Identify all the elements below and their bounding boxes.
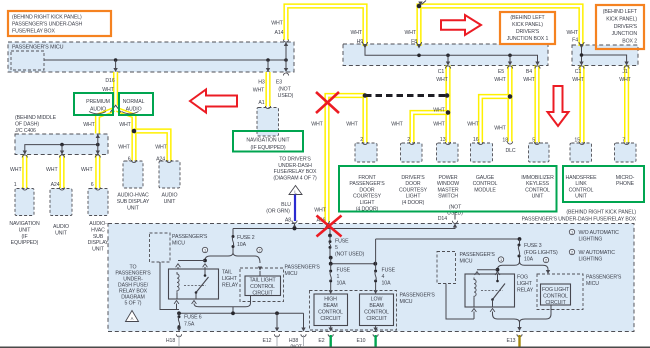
svg-text:PASSENGER'S: PASSENGER'S [285, 265, 321, 271]
svg-text:2: 2 [571, 250, 573, 255]
svg-text:KICK PANEL): KICK PANEL) [606, 16, 637, 22]
svg-text:AUDIO: AUDIO [90, 107, 106, 113]
svg-text:(NOT USED): (NOT USED) [335, 252, 365, 258]
svg-text:UNIT: UNIT [164, 199, 177, 205]
svg-text:E5: E5 [498, 69, 504, 75]
svg-text:W/ AUTOMATIC: W/ AUTOMATIC [579, 250, 616, 256]
svg-text:WHT: WHT [83, 122, 95, 128]
svg-text:UNIT: UNIT [532, 194, 545, 200]
svg-text:AUDIO-: AUDIO- [89, 221, 107, 227]
svg-text:CIRCUIT: CIRCUIT [320, 316, 341, 322]
svg-text:H3: H3 [258, 80, 265, 86]
svg-text:A24: A24 [156, 157, 165, 163]
svg-text:E3: E3 [276, 80, 282, 86]
svg-text:RELAY: RELAY [222, 283, 239, 289]
svg-text:2: 2 [407, 137, 410, 143]
svg-text:1: 1 [500, 257, 502, 262]
svg-text:5: 5 [532, 138, 535, 144]
svg-text:OF DASH): OF DASH) [15, 121, 39, 127]
svg-text:WHT: WHT [314, 207, 326, 213]
svg-text:LIGHT: LIGHT [406, 194, 422, 200]
svg-text:10A: 10A [237, 242, 247, 248]
svg-text:LOW: LOW [371, 297, 383, 303]
svg-text:E13: E13 [507, 338, 516, 344]
svg-text:KICK PANEL): KICK PANEL) [512, 22, 543, 28]
svg-text:FUSE/RELAY BOX: FUSE/RELAY BOX [274, 169, 317, 175]
svg-text:WHT: WHT [346, 122, 358, 128]
svg-text:2: 2 [545, 258, 547, 263]
svg-text:10A: 10A [524, 257, 534, 263]
svg-text:H38: H38 [289, 338, 298, 344]
svg-text:WHT: WHT [572, 77, 584, 83]
svg-text:WHT: WHT [10, 167, 22, 173]
svg-text:A14: A14 [275, 30, 284, 36]
svg-text:AUDIO: AUDIO [53, 224, 69, 230]
svg-text:HANDSFREE: HANDSFREE [565, 175, 597, 181]
svg-text:MICU: MICU [586, 281, 599, 287]
svg-text:6: 6 [91, 182, 94, 188]
svg-text:BLU: BLU [281, 202, 291, 208]
svg-text:2: 2 [360, 137, 363, 143]
svg-text:E12: E12 [263, 338, 272, 344]
svg-text:PREMIUM: PREMIUM [86, 99, 110, 105]
svg-text:A8: A8 [285, 218, 291, 224]
svg-text:NAVIGATION UNIT: NAVIGATION UNIT [246, 138, 290, 144]
svg-text:UNIT: UNIT [92, 247, 105, 253]
svg-text:IMMOBILIZER: IMMOBILIZER [521, 175, 554, 181]
svg-text:E10: E10 [357, 338, 366, 344]
svg-text:AUDIO: AUDIO [126, 107, 142, 113]
svg-text:FUSE: FUSE [382, 268, 396, 274]
svg-text:FUSE/RELAY BOX: FUSE/RELAY BOX [12, 29, 55, 35]
svg-text:FUSE 3: FUSE 3 [524, 243, 542, 249]
svg-text:(4 DOOR): (4 DOOR) [402, 200, 425, 206]
svg-text:JUNCTION BOX 1: JUNCTION BOX 1 [507, 36, 549, 42]
svg-text:FUSE: FUSE [335, 239, 349, 245]
svg-text:H9: H9 [357, 39, 364, 45]
svg-text:(IF EQUIPPED): (IF EQUIPPED) [250, 145, 285, 151]
svg-text:WHT: WHT [118, 145, 130, 151]
svg-text:UNIT: UNIT [55, 230, 68, 236]
svg-text:WHT: WHT [155, 145, 167, 151]
svg-text:JUNCTION: JUNCTION [612, 31, 638, 37]
svg-text:TAIL: TAIL [222, 270, 232, 276]
svg-text:(DIAGRAM 4 OF 7): (DIAGRAM 4 OF 7) [273, 175, 317, 181]
svg-text:15: 15 [574, 138, 580, 144]
svg-text:J1: J1 [622, 69, 627, 75]
svg-text:DOOR: DOOR [359, 187, 375, 193]
svg-text:PASSENGER'S UNDER-DASH: PASSENGER'S UNDER-DASH [12, 22, 83, 28]
svg-text:FOG LIGHT: FOG LIGHT [542, 287, 570, 293]
svg-text:PASSENGER'S: PASSENGER'S [586, 275, 622, 281]
svg-text:10A: 10A [337, 281, 347, 287]
svg-text:B4: B4 [526, 69, 532, 75]
svg-text:PASSENGER'S: PASSENGER'S [172, 234, 208, 240]
svg-text:WHT: WHT [311, 122, 323, 128]
svg-text:(OR GRN): (OR GRN) [266, 209, 290, 215]
svg-text:WHT: WHT [436, 77, 448, 83]
svg-text:CONTROL: CONTROL [569, 187, 594, 193]
svg-text:A: A [131, 316, 134, 321]
svg-text:C1: C1 [575, 69, 582, 75]
svg-text:TAIL LIGHT: TAIL LIGHT [249, 278, 276, 284]
svg-text:10A: 10A [382, 281, 392, 287]
svg-text:7.5A: 7.5A [184, 322, 195, 328]
svg-text:WHT: WHT [391, 122, 403, 128]
svg-text:LIGHTING: LIGHTING [579, 257, 603, 263]
svg-text:(BEHIND MIDDLE: (BEHIND MIDDLE [15, 115, 57, 121]
svg-text:6: 6 [128, 157, 131, 163]
svg-text:FOG: FOG [517, 275, 528, 281]
svg-text:MODULE: MODULE [474, 187, 496, 193]
svg-text:(IF: (IF [21, 234, 27, 240]
svg-text:WHT: WHT [433, 108, 445, 114]
svg-text:2: 2 [258, 248, 260, 253]
svg-text:NORMAL: NORMAL [123, 99, 145, 105]
svg-text:LIGHT: LIGHT [517, 281, 533, 287]
svg-text:WHT: WHT [566, 30, 578, 36]
svg-text:WHT: WHT [404, 30, 416, 36]
svg-text:WHT: WHT [523, 77, 535, 83]
svg-text:1: 1 [337, 274, 340, 280]
svg-text:D16: D16 [105, 78, 114, 84]
svg-text:LIGHT: LIGHT [222, 276, 238, 282]
svg-text:HVAC: HVAC [91, 227, 105, 233]
svg-text:5: 5 [335, 245, 338, 251]
svg-text:A1: A1 [258, 100, 264, 106]
svg-text:CIRCUIT: CIRCUIT [252, 290, 273, 296]
svg-text:13: 13 [440, 137, 446, 143]
svg-text:(FOG LIGHTS): (FOG LIGHTS) [524, 250, 558, 256]
svg-text:(BEHIND LEFT: (BEHIND LEFT [510, 15, 545, 21]
svg-text:5 OF 7): 5 OF 7) [125, 301, 142, 307]
svg-text:WHT: WHT [81, 167, 93, 173]
svg-text:MICU: MICU [172, 241, 185, 247]
svg-text:GAUGE: GAUGE [476, 175, 495, 181]
svg-text:1: 1 [571, 230, 573, 235]
svg-text:7: 7 [622, 138, 625, 144]
svg-text:F4: F4 [572, 38, 578, 44]
svg-text:UNIT: UNIT [19, 227, 32, 233]
svg-text:(NOT: (NOT [449, 205, 462, 211]
svg-text:HIGH: HIGH [324, 297, 337, 303]
svg-text:CONTROL: CONTROL [250, 284, 275, 290]
svg-text:PASSENGER'S: PASSENGER'S [400, 293, 436, 299]
svg-text:CIRCUIT: CIRCUIT [366, 316, 387, 322]
svg-text:CONTROL: CONTROL [318, 310, 343, 316]
svg-text:1: 1 [204, 248, 206, 253]
svg-text:BOX 2: BOX 2 [622, 39, 637, 45]
svg-text:WHT: WHT [619, 77, 631, 83]
svg-text:CONTROL: CONTROL [543, 294, 568, 300]
svg-text:CONTROL: CONTROL [364, 310, 389, 316]
svg-text:FRONT: FRONT [358, 175, 376, 181]
svg-text:18: 18 [502, 138, 508, 144]
svg-text:FUSE 6: FUSE 6 [184, 315, 202, 321]
svg-text:A24: A24 [51, 182, 60, 188]
svg-text:E2: E2 [318, 338, 324, 344]
svg-text:(BEHIND RIGHT KICK PANEL): (BEHIND RIGHT KICK PANEL) [566, 210, 636, 216]
svg-text:MICU: MICU [285, 271, 298, 277]
svg-text:DRIVER'S: DRIVER'S [614, 24, 638, 30]
svg-text:CONTROL: CONTROL [473, 181, 498, 187]
svg-text:WHT: WHT [46, 167, 58, 173]
svg-text:FUSE: FUSE [337, 268, 351, 274]
svg-text:UNDER-DASH: UNDER-DASH [278, 163, 312, 169]
svg-text:COURTESY: COURTESY [399, 187, 428, 193]
svg-text:WINDOW: WINDOW [437, 181, 459, 187]
svg-text:MICRO-: MICRO- [616, 175, 635, 181]
svg-text:(BEHIND RIGHT KICK PANEL): (BEHIND RIGHT KICK PANEL) [12, 15, 82, 21]
svg-text:PASSENGER'S UNDER-DASH FUSE/RE: PASSENGER'S UNDER-DASH FUSE/RELAY BOX [522, 217, 637, 223]
svg-text:W/O AUTOMATIC: W/O AUTOMATIC [579, 230, 620, 236]
svg-text:COURTESY: COURTESY [353, 194, 382, 200]
svg-text:DISPLAY: DISPLAY [88, 240, 109, 246]
svg-text:PASSENGER'S: PASSENGER'S [349, 181, 385, 187]
svg-text:UNIT: UNIT [575, 194, 588, 200]
svg-text:EQUIPPED): EQUIPPED) [11, 240, 39, 246]
svg-text:J/C C406: J/C C406 [15, 128, 36, 134]
svg-text:AUDIO-HVAC: AUDIO-HVAC [117, 193, 149, 199]
svg-text:LINK: LINK [575, 181, 587, 187]
svg-text:CONTROL: CONTROL [525, 187, 550, 193]
svg-text:4: 4 [382, 274, 385, 280]
svg-text:LIGHT: LIGHT [360, 200, 376, 206]
svg-text:WHT: WHT [467, 122, 479, 128]
svg-text:SWITCH: SWITCH [438, 194, 458, 200]
svg-text:(BEHIND LEFT: (BEHIND LEFT [603, 9, 638, 15]
svg-text:MICU: MICU [460, 259, 473, 265]
svg-text:RELAY: RELAY [517, 288, 534, 294]
svg-text:FUSE 2: FUSE 2 [237, 235, 255, 241]
svg-text:D14: D14 [438, 216, 447, 222]
svg-text:DOOR: DOOR [405, 181, 421, 187]
svg-text:KEYLESS: KEYLESS [526, 181, 550, 187]
svg-text:SUB: SUB [93, 234, 104, 240]
svg-text:NAVIGATION: NAVIGATION [9, 221, 40, 227]
svg-text:WHT: WHT [494, 126, 506, 132]
svg-text:DRIVER'S: DRIVER'S [401, 175, 425, 181]
svg-text:BEAM: BEAM [323, 303, 337, 309]
svg-text:PHONE: PHONE [616, 181, 635, 187]
svg-text:PASSENGER'S MICU: PASSENGER'S MICU [12, 45, 64, 51]
svg-text:(NOT: (NOT [278, 87, 291, 93]
svg-text:WHT: WHT [494, 77, 506, 83]
svg-text:WHT: WHT [433, 122, 445, 128]
svg-text:C1: C1 [438, 69, 445, 75]
svg-text:16: 16 [473, 137, 479, 143]
svg-text:F8: F8 [411, 39, 417, 45]
svg-text:WHT: WHT [350, 30, 362, 36]
svg-text:1: 1 [14, 182, 17, 188]
svg-text:AUDIO: AUDIO [162, 193, 178, 199]
svg-text:WHT: WHT [119, 122, 131, 128]
svg-text:USED): USED) [278, 93, 294, 99]
svg-text:BEAM: BEAM [369, 303, 383, 309]
svg-text:H18: H18 [166, 338, 175, 344]
svg-text:DLC: DLC [505, 148, 515, 154]
svg-text:POWER: POWER [438, 175, 457, 181]
svg-text:PASSENGER'S: PASSENGER'S [460, 252, 496, 258]
svg-text:MASTER: MASTER [437, 187, 458, 193]
svg-text:DRIVER'S: DRIVER'S [516, 29, 540, 35]
svg-text:SUB DISPLAY: SUB DISPLAY [117, 199, 150, 205]
svg-text:CIRCUIT: CIRCUIT [545, 300, 566, 306]
svg-text:UNIT: UNIT [127, 205, 140, 211]
svg-text:WHT: WHT [271, 21, 283, 27]
svg-text:LIGHTING: LIGHTING [579, 237, 603, 243]
svg-text:WHT: WHT [253, 88, 265, 94]
svg-text:MICU: MICU [400, 299, 413, 305]
svg-text:TO DRIVER'S: TO DRIVER'S [279, 157, 311, 163]
